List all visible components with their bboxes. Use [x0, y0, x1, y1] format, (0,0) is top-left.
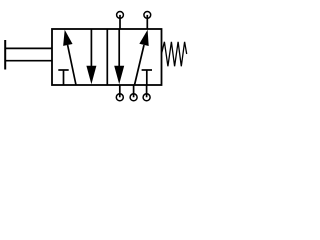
port 5 stem	[119, 85, 121, 97]
port 1 stem	[133, 85, 135, 97]
position divider	[106, 29, 108, 85]
left box: blocked port T	[58, 70, 68, 85]
5/2-way pneumatic directional valve, push-button actuated, spring return	[0, 0, 189, 107]
left box: diagonal arrow 1->4	[63, 30, 76, 85]
valve body outline	[52, 29, 162, 85]
right box: blocked port T	[142, 70, 152, 85]
port 3 stem	[146, 85, 148, 97]
right box: down arrow 4->5	[114, 29, 124, 84]
port 4 stem	[119, 15, 121, 29]
return spring	[162, 42, 187, 67]
port 1 circle	[130, 94, 137, 101]
port 4 circle	[117, 12, 124, 19]
right box: diagonal arrow 1->2	[135, 30, 149, 85]
push-button face bar	[4, 40, 6, 70]
port 5 circle	[116, 94, 123, 101]
port 2 stem	[146, 15, 148, 29]
push-button actuator rails	[5, 47, 52, 49]
port 2 circle	[144, 12, 151, 19]
port 3 circle	[143, 94, 150, 101]
left box: down arrow 2->3	[86, 29, 96, 84]
